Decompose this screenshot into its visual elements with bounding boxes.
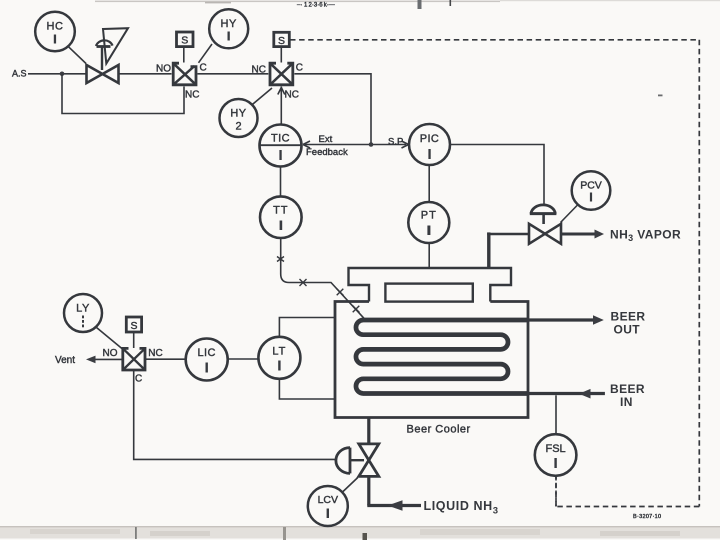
svg-text:–· 1 2·3·6 k·—: –· 1 2·3·6 k·— — [297, 3, 335, 9]
svg-text:S: S — [130, 320, 137, 332]
svg-text:HC: HC — [47, 21, 64, 33]
svg-text:NO: NO — [103, 348, 118, 359]
svg-text:NC: NC — [148, 348, 162, 359]
svg-text:FSL: FSL — [546, 443, 566, 455]
svg-text:IN: IN — [620, 395, 633, 409]
svg-text:LIC: LIC — [198, 347, 216, 359]
svg-text:OUT: OUT — [614, 323, 641, 337]
svg-text:NO: NO — [156, 64, 171, 75]
svg-text:LCV: LCV — [318, 494, 338, 506]
svg-text:LT: LT — [272, 346, 286, 358]
svg-text:2: 2 — [235, 121, 241, 133]
svg-text:NC: NC — [285, 90, 299, 101]
svg-text:Feedback: Feedback — [306, 147, 348, 158]
svg-text:C: C — [135, 374, 142, 385]
svg-text:PCV: PCV — [580, 180, 602, 192]
svg-text:C: C — [296, 63, 303, 74]
svg-text:BEER: BEER — [611, 310, 646, 324]
svg-text:PIC: PIC — [420, 133, 440, 145]
svg-text:A.S: A.S — [12, 69, 27, 79]
svg-text:Ext: Ext — [319, 134, 333, 145]
svg-text:TT: TT — [273, 205, 288, 217]
svg-text:Beer Cooler: Beer Cooler — [407, 424, 471, 436]
svg-text:HY: HY — [221, 18, 237, 30]
svg-text:S.P: S.P — [388, 137, 403, 148]
svg-text:HY: HY — [230, 108, 246, 120]
svg-text:Vent: Vent — [55, 355, 75, 366]
svg-text:S: S — [181, 35, 188, 47]
svg-text:NC: NC — [252, 65, 266, 76]
svg-text:PT: PT — [421, 210, 437, 222]
svg-text:LY: LY — [76, 303, 90, 315]
svg-text:B·3207·10: B·3207·10 — [633, 514, 661, 520]
svg-text:S: S — [278, 35, 285, 47]
svg-text:NH3 VAPOR: NH3 VAPOR — [610, 228, 681, 244]
svg-text:TIC: TIC — [271, 133, 290, 145]
svg-text:C: C — [200, 63, 207, 74]
svg-text:LIQUID NH3: LIQUID NH3 — [424, 499, 499, 517]
svg-text:NC: NC — [185, 90, 199, 101]
